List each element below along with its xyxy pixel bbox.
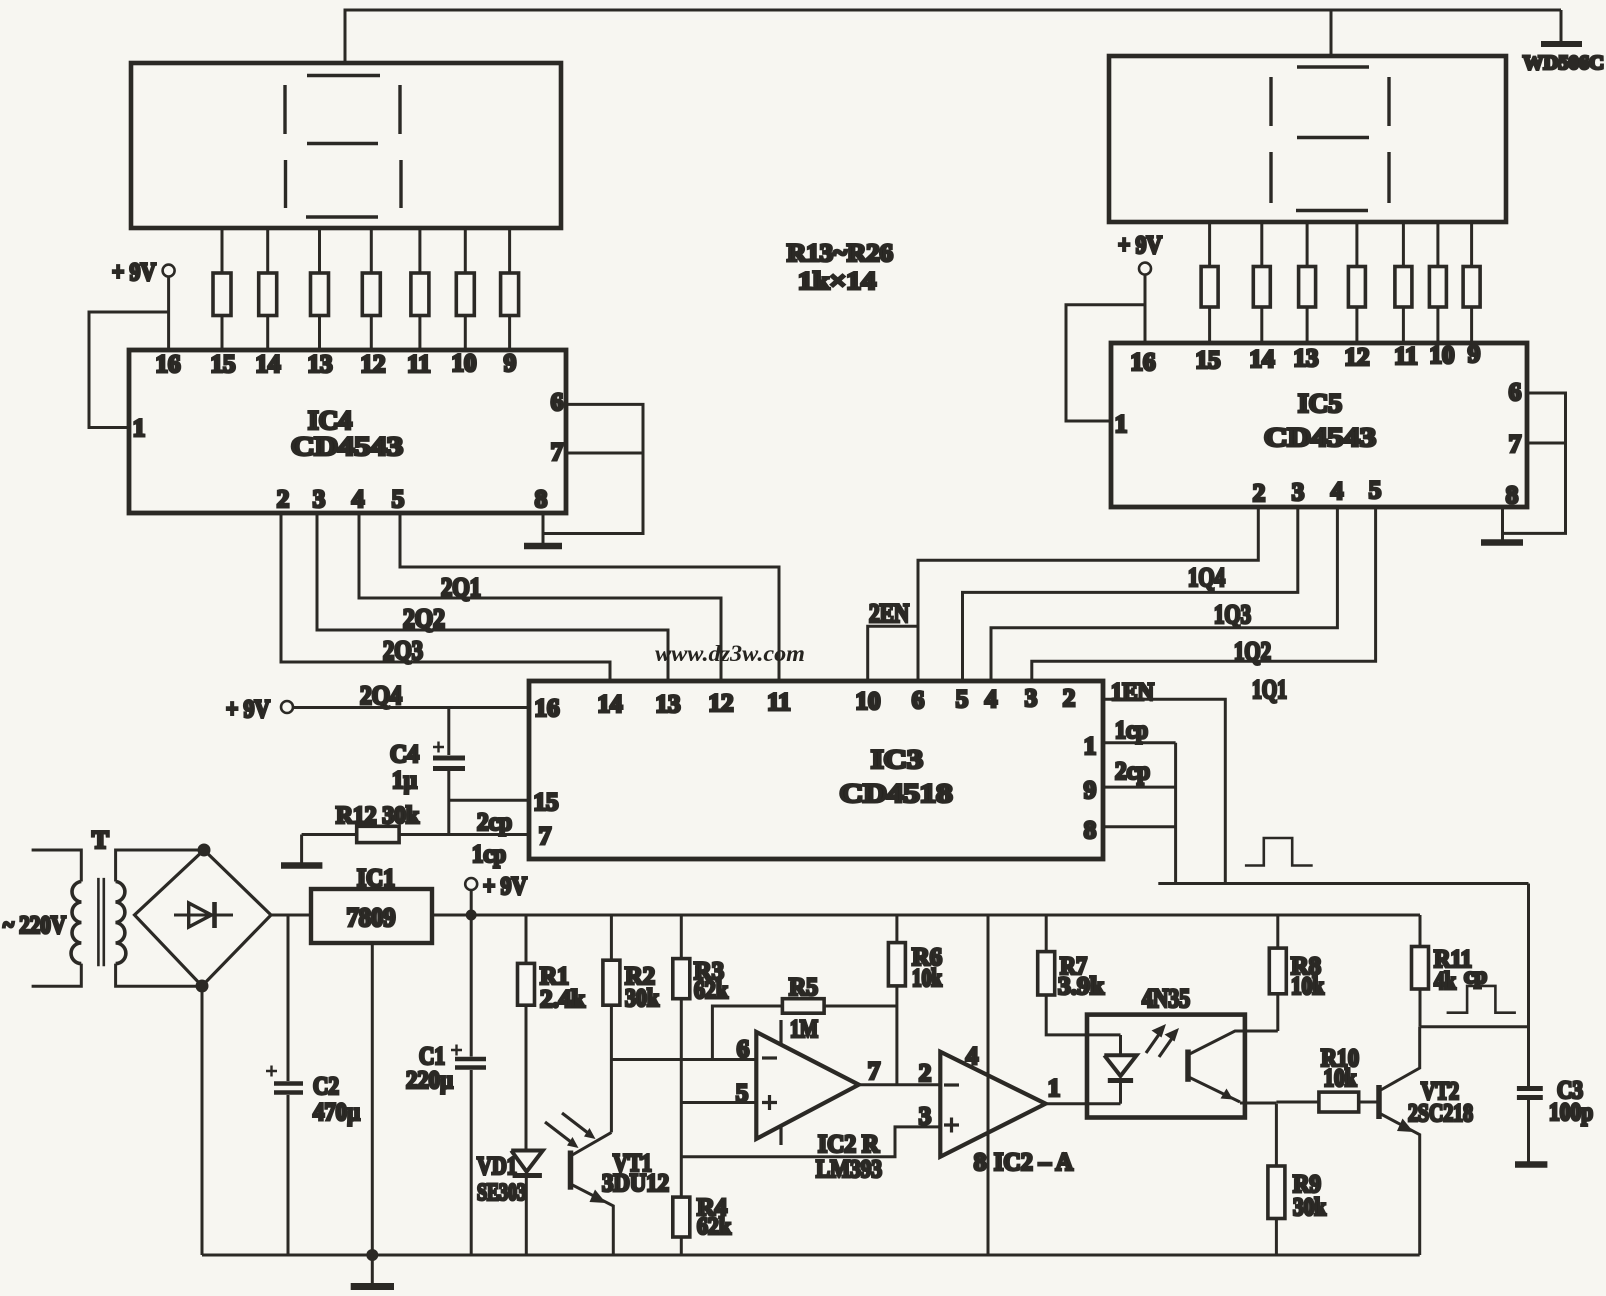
resistor R6 10k <box>888 915 942 1085</box>
wire: cp bus <box>1158 882 1528 885</box>
svg-text:2: 2 <box>1063 685 1076 712</box>
svg-text:1EN: 1EN <box>1111 679 1154 706</box>
label IC2 R LM393 <box>816 1131 882 1183</box>
wire: IC2-A output to 4N35 LED <box>1046 1102 1121 1105</box>
ground (C3) <box>1515 1161 1547 1168</box>
+9V terminal (rail) <box>465 873 527 915</box>
net 1Q3: IC5 pin3 to IC3 pin5 <box>963 507 1298 681</box>
svg-text:7: 7 <box>551 439 564 466</box>
svg-text:2EN: 2EN <box>869 599 909 628</box>
svg-text:2cp: 2cp <box>1115 758 1150 785</box>
svg-text:3DU12: 3DU12 <box>602 1170 669 1197</box>
svg-text:9: 9 <box>1468 341 1481 368</box>
resistor R12 30k <box>302 803 529 843</box>
capacitor C2 470u <box>266 915 360 1255</box>
ground (R12) <box>281 835 322 866</box>
svg-text:2.4k: 2.4k <box>540 986 585 1013</box>
net 2Q1: IC4 pin5 to IC3 pin11 <box>400 513 779 681</box>
ground (main) <box>351 1255 394 1287</box>
svg-text:VD1: VD1 <box>477 1153 517 1180</box>
wire: IC3 pin 15 <box>449 799 529 802</box>
resistor R2 30k <box>603 915 659 1132</box>
svg-text:IC4: IC4 <box>308 406 352 435</box>
svg-text:9: 9 <box>1084 777 1097 804</box>
op-amp IC2-B (comparator, pins 6,5,7) <box>736 1020 881 1145</box>
svg-text:14: 14 <box>598 691 624 718</box>
net 2Q2: IC4 pin4 to IC3 pin12 <box>359 513 721 681</box>
svg-text:470µ: 470µ <box>313 1099 360 1126</box>
junction: bridge bottom node <box>196 980 209 993</box>
svg-text:6: 6 <box>737 1036 750 1063</box>
capacitor C4 1u <box>390 708 465 835</box>
svg-text:15: 15 <box>1196 347 1221 374</box>
svg-text:10: 10 <box>856 688 881 715</box>
wire: comparator output to IC2-A pin 2 <box>859 1083 941 1086</box>
wire: IC4 pins 6,7 loop to pin 8 <box>543 404 643 533</box>
optocoupler 4N35 <box>1087 984 1278 1118</box>
net 1Q4: IC5 pin2 to IC3 pin6 <box>918 507 1258 681</box>
net 1Q2: IC5 pin4 to IC3 pin4 <box>991 507 1337 681</box>
wire: R11/VT2 collector node to C3 <box>1420 1025 1529 1028</box>
resistor R16 1k <box>362 228 380 350</box>
svg-text:7: 7 <box>868 1058 881 1085</box>
net 1Q1: IC5 pin5 to IC3 pin3 <box>1032 507 1376 704</box>
svg-text:3.9k: 3.9k <box>1058 973 1104 1000</box>
svg-text:SE303: SE303 <box>477 1180 526 1206</box>
wire: IC5 pin 8 to ground <box>1501 507 1504 541</box>
svg-text:+ 9V: + 9V <box>483 873 527 900</box>
+9V terminal (IC4 pin 16) <box>112 259 175 350</box>
svg-text:+ 9V: + 9V <box>1118 232 1162 259</box>
svg-text:1µ: 1µ <box>392 767 417 794</box>
pulse waveform symbol (cp bus) <box>1245 838 1313 866</box>
svg-text:10: 10 <box>1430 342 1455 369</box>
svg-text:8: 8 <box>1506 482 1519 509</box>
svg-text:16: 16 <box>156 351 181 378</box>
svg-text:12: 12 <box>1345 344 1370 371</box>
transistor VT2 2SC218 <box>1379 1027 1473 1255</box>
svg-text:1Q4: 1Q4 <box>1188 563 1225 592</box>
resistor R13 1k <box>213 228 231 350</box>
svg-text:12: 12 <box>709 690 734 717</box>
svg-text:13: 13 <box>656 691 681 718</box>
svg-text:6: 6 <box>551 389 564 416</box>
svg-text:www.dz3w.com: www.dz3w.com <box>655 641 805 666</box>
+9V terminal (IC5 pin 16) <box>1118 232 1162 343</box>
wire: bridge bottom to ground rail <box>201 986 204 1255</box>
svg-text:5: 5 <box>956 686 969 713</box>
svg-text:13: 13 <box>308 351 333 378</box>
svg-text:12: 12 <box>361 351 386 378</box>
svg-text:2: 2 <box>1253 480 1266 507</box>
svg-text:1: 1 <box>133 415 146 442</box>
svg-text:100p: 100p <box>1549 1099 1593 1126</box>
svg-text:R13~R26: R13~R26 <box>787 240 893 267</box>
svg-text:15: 15 <box>534 789 559 816</box>
+9V terminal (IC3 pin 16) <box>226 696 529 723</box>
svg-text:4: 4 <box>352 486 365 513</box>
wire: comparator pin 5 input <box>681 1101 756 1104</box>
resistor R14 1k <box>259 228 277 350</box>
wire: bridge to IC1 <box>271 914 311 917</box>
svg-text:16: 16 <box>1131 349 1156 376</box>
resistor R3 62k <box>673 915 728 1255</box>
svg-text:14: 14 <box>256 351 282 378</box>
svg-text:IC1: IC1 <box>357 865 395 892</box>
wire: IC4 pin 8 to ground <box>542 513 545 545</box>
svg-text:3: 3 <box>313 486 326 513</box>
resistor R11 4k <box>1412 915 1473 1027</box>
wire: bottom ground rail <box>202 1254 1420 1257</box>
svg-text:62k: 62k <box>697 1214 732 1240</box>
label resistor array R13~R26 1k x 14 <box>787 240 893 295</box>
svg-text:11: 11 <box>407 351 431 378</box>
svg-text:1Q1: 1Q1 <box>1252 675 1287 704</box>
svg-text:1: 1 <box>1048 1075 1061 1102</box>
svg-text:1k×14: 1k×14 <box>798 268 877 295</box>
svg-text:1: 1 <box>1115 411 1128 438</box>
resistor R10 10k <box>1276 1045 1377 1112</box>
svg-text:9: 9 <box>504 350 517 377</box>
svg-text:14: 14 <box>1250 346 1276 373</box>
svg-text:8: 8 <box>1084 817 1097 844</box>
wire: clock feed vertical <box>1174 743 1177 884</box>
IC5 CD4543 <box>1111 341 1527 509</box>
ground (IC4 pin 8) <box>524 543 562 550</box>
svg-text:8: 8 <box>974 1149 987 1176</box>
wire: IC5 pin 1 to +9V <box>1066 305 1145 421</box>
net 2Q4: IC4 pin2 to IC3 pin14 <box>281 513 610 710</box>
svg-text:IC2 R: IC2 R <box>818 1131 880 1158</box>
resistor R22 1k <box>1299 222 1316 343</box>
net 1cp: IC3 pin 1 <box>1103 717 1176 744</box>
svg-text:+ 9V: + 9V <box>226 696 270 723</box>
resistor R19 1k <box>501 228 519 350</box>
op-amp IC2-A (pins 2,3,1,4,8) <box>919 915 1073 1255</box>
resistor R24 1k <box>1395 222 1412 343</box>
svg-text:4N35: 4N35 <box>1142 984 1190 1013</box>
resistor R18 1k <box>456 228 474 350</box>
resistor R8 10k <box>1269 915 1324 1031</box>
wire: IC4 pin 1 to +9V <box>89 312 169 428</box>
resistor R26 1k <box>1463 222 1480 343</box>
resistor R7 3.9k <box>1038 915 1121 1035</box>
svg-text:IC2 – A: IC2 – A <box>994 1149 1073 1176</box>
net 2Q3: IC4 pin3 to IC3 pin13 <box>317 513 668 681</box>
light arrows into VT1 <box>545 1113 596 1148</box>
svg-text:3: 3 <box>919 1103 932 1130</box>
net 2EN: IC3 pin10 to pin6 <box>868 599 918 681</box>
svg-text:5: 5 <box>736 1080 749 1107</box>
resistor R23 1k <box>1348 222 1365 343</box>
ground (IC5 pin 8) <box>1481 539 1523 546</box>
svg-text:30k: 30k <box>625 985 659 1012</box>
svg-text:7: 7 <box>1509 431 1522 458</box>
svg-text:7: 7 <box>539 823 552 850</box>
resistor R17 1k <box>411 228 429 350</box>
svg-text:4: 4 <box>985 686 998 713</box>
svg-text:LM393: LM393 <box>816 1156 882 1183</box>
svg-text:11: 11 <box>1394 343 1418 370</box>
svg-text:4: 4 <box>1331 478 1344 505</box>
svg-text:3: 3 <box>1025 685 1038 712</box>
wire: top bus from left display to WD506C <box>345 10 1561 63</box>
resistor R15 1k <box>311 228 329 350</box>
7-segment display (right digit, WD506C) <box>1109 56 1506 222</box>
net 2cp: IC3 pin 9 <box>1103 758 1176 787</box>
svg-text:C1: C1 <box>419 1043 445 1070</box>
wire: right display top pin <box>1330 10 1333 56</box>
svg-text:1: 1 <box>1084 733 1097 760</box>
resistor R21 1k <box>1253 222 1270 343</box>
regulator IC1 7809 <box>311 865 432 943</box>
svg-text:C4: C4 <box>390 741 419 768</box>
svg-text:62k: 62k <box>694 977 728 1004</box>
phototransistor VT1 3DU12 <box>571 1132 670 1255</box>
svg-text:13: 13 <box>1294 345 1319 372</box>
svg-text:4: 4 <box>966 1043 979 1070</box>
svg-text:WD506C: WD506C <box>1523 52 1604 74</box>
svg-text:IC3: IC3 <box>871 745 923 774</box>
svg-text:1Q3: 1Q3 <box>1214 600 1251 629</box>
svg-text:10k: 10k <box>1291 973 1324 1000</box>
wire: comparator pin 6 input <box>611 1058 756 1061</box>
wire: pin 3 input of IC2-A <box>681 1127 940 1157</box>
pulse waveform symbol (cp output) <box>1447 986 1516 1013</box>
resistor R25 1k <box>1429 222 1446 343</box>
svg-text:10k: 10k <box>1324 1065 1357 1092</box>
svg-text:IC5: IC5 <box>1298 389 1342 418</box>
svg-text:15: 15 <box>211 351 236 378</box>
svg-text:T: T <box>92 827 109 854</box>
svg-text:1M: 1M <box>790 1016 818 1043</box>
7-segment display (left digit, WD506C) <box>131 63 561 228</box>
svg-text:30k: 30k <box>1293 1194 1326 1221</box>
svg-text:1cp: 1cp <box>1115 717 1148 744</box>
svg-text:2SC218: 2SC218 <box>1408 1100 1473 1127</box>
terminal WD506C <box>1523 10 1604 74</box>
svg-text:3: 3 <box>1292 479 1305 506</box>
svg-text:7809: 7809 <box>347 903 396 932</box>
svg-text:4k: 4k <box>1434 968 1456 995</box>
svg-text:11: 11 <box>767 689 791 716</box>
wire: IC1 ground leg <box>371 943 374 1255</box>
bridge rectifier <box>135 850 272 986</box>
photodiode VD1 SE303 <box>477 1151 543 1256</box>
svg-text:1cp: 1cp <box>472 841 506 868</box>
capacitor C3 100p <box>1517 884 1593 1163</box>
svg-text:6: 6 <box>912 687 925 714</box>
wire: IC5 pins 6,7 loop to pin 8 <box>1503 393 1566 533</box>
svg-text:cp: cp <box>1464 963 1487 988</box>
junction: bridge top node <box>198 844 211 857</box>
svg-text:+ 9V: + 9V <box>112 259 156 286</box>
svg-text:10: 10 <box>452 350 477 377</box>
svg-text:CD4518: CD4518 <box>840 779 953 808</box>
resistor R9 30k <box>1268 1104 1326 1255</box>
transformer T <box>3 827 204 986</box>
svg-text:5: 5 <box>1369 477 1382 504</box>
svg-text:2: 2 <box>919 1060 932 1087</box>
svg-text:16: 16 <box>535 695 560 722</box>
IC4 CD4543 <box>129 350 566 513</box>
svg-text:8: 8 <box>535 486 548 513</box>
svg-text:R12 30k: R12 30k <box>336 803 420 829</box>
resistor R20 1k <box>1201 222 1218 343</box>
svg-text:5: 5 <box>392 486 405 513</box>
svg-text:2cp: 2cp <box>477 809 512 836</box>
IC3 CD4518 <box>529 681 1103 859</box>
svg-text:10k: 10k <box>912 965 942 992</box>
resistor R4 62k <box>673 1195 732 1240</box>
svg-text:220µ: 220µ <box>406 1067 453 1094</box>
junction: IC1 ground node <box>366 1249 378 1261</box>
wire: IC3 pin 8 <box>1103 825 1176 828</box>
resistor R1 2.4k <box>518 915 586 1151</box>
junction: IC1 output node <box>466 910 477 921</box>
svg-text:2: 2 <box>277 486 290 513</box>
svg-text:CD4543: CD4543 <box>291 432 403 461</box>
svg-text:C2: C2 <box>313 1073 339 1100</box>
wire: +9V rail <box>432 914 1420 917</box>
svg-text:~ 220V: ~ 220V <box>3 912 66 939</box>
svg-text:6: 6 <box>1509 379 1522 406</box>
svg-text:2Q4: 2Q4 <box>360 681 402 710</box>
net 1EN: IC3 pin 2 <box>1103 679 1225 884</box>
capacitor C1 220u <box>406 915 486 1255</box>
svg-text:CD4543: CD4543 <box>1264 423 1376 452</box>
resistor R5 1M feedback <box>712 974 897 1060</box>
svg-text:R5: R5 <box>789 974 818 1001</box>
